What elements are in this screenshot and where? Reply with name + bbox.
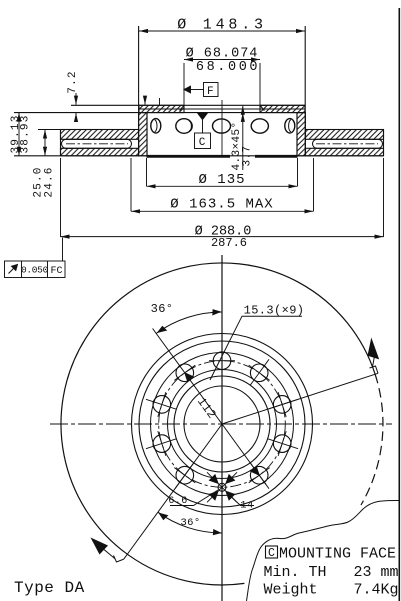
- screw hole X arrows: [207, 472, 237, 502]
- svg-text:14: 14: [240, 500, 253, 512]
- dim 4.3 shaft: [242, 112, 244, 170]
- svg-text:3.7: 3.7: [242, 145, 254, 166]
- vane centerline left dash-dot: [66, 143, 128, 145]
- hat outer wall right: [304, 26, 306, 156]
- svg-text:15.3(×9): 15.3(×9): [244, 304, 305, 318]
- circle hub step: [174, 376, 270, 472]
- svg-text:68.000: 68.000: [196, 60, 260, 75]
- hole at 18: [273, 396, 291, 414]
- dim D68 extension right: [259, 63, 261, 113]
- hat outer wall left: [138, 26, 140, 156]
- svg-text:0.050: 0.050: [21, 265, 49, 276]
- ext D288 right: [383, 158, 385, 237]
- hole at 162: [153, 396, 171, 414]
- hole ellipse 4: [251, 119, 268, 133]
- circle bore D68: [184, 386, 260, 462]
- hatch rim left top plate: [61, 130, 139, 140]
- hat inner wall left: [146, 113, 148, 156]
- hat top line: [71, 104, 305, 106]
- circle hole outer tangent: [151, 353, 294, 496]
- dim 7.2 outer arrows: [75, 93, 77, 105]
- hatch hat flange right: [260, 105, 305, 112]
- svg-text:287.6: 287.6: [211, 236, 247, 250]
- circle D163.5: [132, 334, 313, 515]
- circle D148.3: [139, 341, 305, 507]
- hole at -54: [250, 466, 268, 484]
- bore edge right chamfer: [260, 105, 264, 110]
- 36 top arc: [156, 312, 222, 333]
- svg-text:24.6: 24.6: [44, 166, 56, 197]
- X arm NE: [222, 472, 237, 487]
- ext D135 left: [146, 158, 148, 186]
- F datum box: [204, 83, 219, 97]
- hole at -18: [273, 435, 291, 453]
- dim 7.2 arrow at hat corner: [144, 97, 146, 105]
- ext D163.5 left: [130, 158, 132, 211]
- X arm SE: [222, 487, 237, 502]
- 36 bottom arc: [158, 512, 222, 533]
- rim top line left: [38, 129, 139, 131]
- rim top line right: [306, 129, 384, 131]
- dim 39.13 line: [18, 113, 20, 156]
- svg-text:36°: 36°: [151, 302, 174, 316]
- vane centerline right dash-dot: [316, 143, 378, 145]
- hole ellipse 1 inner: [155, 120, 157, 132]
- svg-text:6.6: 6.6: [168, 496, 187, 507]
- svg-text:Type DA: Type DA: [14, 579, 85, 597]
- 14 leader: [227, 493, 254, 506]
- dim line D68.074: [184, 59, 260, 61]
- hatch rim right bottom plate: [306, 148, 384, 156]
- hatch hat wall left: [139, 113, 147, 156]
- F datum triangle: [184, 86, 191, 93]
- ext D163.5 right: [313, 158, 315, 211]
- radial 306: [222, 424, 266, 485]
- svg-text:Min. TH 23 mm: Min. TH 23 mm: [264, 564, 399, 581]
- svg-text:C: C: [268, 547, 275, 560]
- mounting face thick line left segment: [147, 155, 231, 158]
- stub line: [159, 98, 161, 105]
- radial 234 section cut: [124, 424, 222, 559]
- svg-text:36°: 36°: [180, 517, 200, 529]
- C datum box: [195, 133, 211, 149]
- mounting face thick line right segment: [255, 155, 298, 158]
- dim line D288: [61, 236, 384, 238]
- break curve: [247, 500, 400, 601]
- hole at 126: [176, 364, 194, 382]
- svg-text:Ø 163.5 MAX: Ø 163.5 MAX: [170, 197, 273, 213]
- svg-text:38.93: 38.93: [20, 114, 32, 153]
- svg-text:Ø 135: Ø 135: [198, 172, 245, 188]
- title block texts: [14, 546, 399, 599]
- circle hole inner tangent: [168, 370, 277, 479]
- hatch rim right top plate: [306, 130, 384, 140]
- hat inner wall right: [296, 113, 298, 156]
- hatch hat wall right: [297, 113, 305, 156]
- dim line D135: [147, 185, 298, 187]
- hole ellipse 5: [285, 119, 295, 133]
- svg-text:F: F: [207, 86, 215, 98]
- rim right outer edge: [383, 130, 385, 156]
- radial lines and angle dims: [91, 309, 380, 562]
- bolt holes in section (ellipses): [151, 119, 295, 134]
- dim 25.0 line: [44, 130, 46, 156]
- right border: [398, 8, 400, 601]
- break line cutaway: [247, 500, 400, 601]
- outer circle dashed part: [361, 374, 383, 505]
- C datum leader: [202, 120, 204, 133]
- vane slot right outline: [313, 139, 383, 148]
- svg-text:FC: FC: [50, 266, 62, 277]
- hatch hat flange left: [139, 105, 184, 112]
- runout symbol: [9, 267, 16, 274]
- hatch rim left bottom plate: [61, 148, 139, 156]
- ext D288 left: [60, 158, 62, 237]
- outer circle solid part: [61, 263, 375, 585]
- horizontal centerline dash-dot: [50, 423, 392, 425]
- mounting face box C: [266, 546, 278, 558]
- mounting face plane line: [14, 112, 305, 114]
- section centerline: [221, 100, 223, 157]
- hole at 54: [250, 364, 268, 382]
- hole at 234: [176, 466, 194, 484]
- vertical centerline: [221, 255, 223, 601]
- svg-text:Weight 7.4Kg: Weight 7.4Kg: [264, 582, 399, 599]
- C datum triangle: [197, 113, 207, 120]
- F datum leader: [190, 89, 204, 91]
- vane slot left outline: [62, 139, 132, 148]
- bottom face line full: [14, 155, 384, 157]
- center lines: [50, 255, 392, 601]
- svg-text:C: C: [199, 137, 207, 149]
- rim left outer edge: [60, 130, 62, 156]
- hole ellipse 3: [213, 119, 231, 133]
- hole ellipse 1: [151, 119, 161, 133]
- ext D135 right: [297, 158, 299, 186]
- FCF box: [5, 261, 66, 278]
- X arm NW: [207, 472, 222, 487]
- bore edge left chamfer: [180, 105, 184, 110]
- dim line D163.5: [131, 210, 314, 212]
- svg-text:Ø 148.3: Ø 148.3: [177, 17, 267, 34]
- 6.6 leader: [170, 490, 218, 506]
- svg-text:7.2: 7.2: [67, 70, 79, 93]
- bottom screw hole: [218, 483, 226, 491]
- hole ellipse 5 inner: [289, 120, 291, 132]
- hat mid line: [139, 108, 305, 110]
- dim D68 extension left: [183, 63, 185, 113]
- hole at 90: [213, 352, 231, 370]
- svg-text:MOUNTING FACE: MOUNTING FACE: [279, 546, 396, 563]
- 112 dim arrows: [185, 373, 205, 397]
- X arm SW: [207, 487, 222, 502]
- bolt holes: [146, 352, 298, 491]
- bolt circle dash-dot: [159, 361, 286, 488]
- radial 126 (112 dim): [153, 329, 222, 425]
- section arrow SW: [114, 556, 124, 563]
- FCF leader: [62, 238, 64, 262]
- 15.3 leader: [210, 316, 302, 380]
- section arrow NE: [370, 366, 379, 373]
- radial 18 section cut: [222, 373, 378, 424]
- dim line D148.3: [139, 30, 305, 32]
- hole at 198: [153, 435, 171, 453]
- hole ellipse 2: [176, 119, 192, 134]
- hole ellipse 2 inner: [189, 121, 191, 131]
